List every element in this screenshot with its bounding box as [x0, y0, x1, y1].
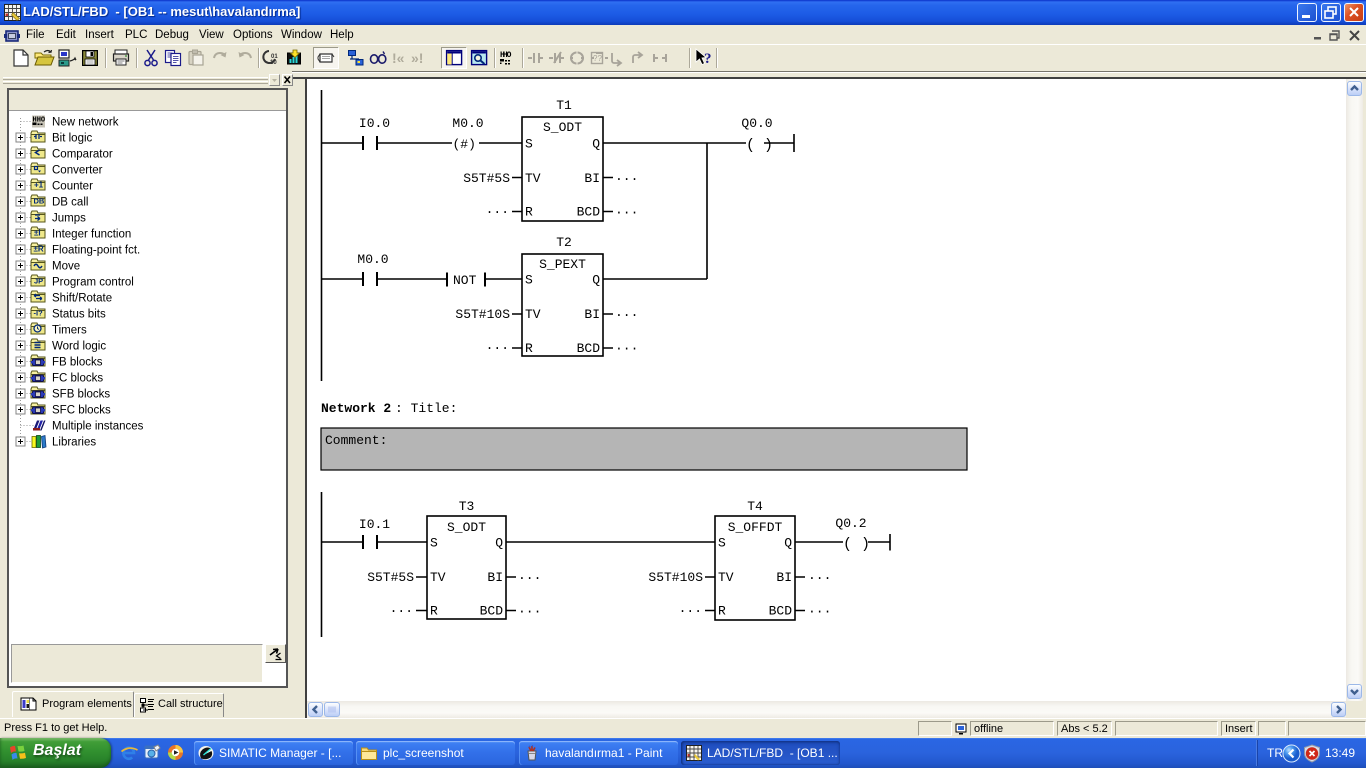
svg-text:R: R [525, 341, 533, 356]
svg-text:Q0.2: Q0.2 [835, 516, 866, 531]
svg-text:M0.0: M0.0 [452, 116, 483, 131]
svg-text:T3: T3 [459, 499, 475, 514]
svg-text:BI: BI [584, 307, 600, 322]
svg-text:(#): (#) [453, 137, 476, 152]
svg-text:BCD: BCD [769, 604, 793, 619]
svg-text:...: ... [808, 602, 831, 617]
svg-text:...: ... [679, 601, 702, 616]
svg-text:S_OFFDT: S_OFFDT [728, 520, 783, 535]
svg-text:DB: DB [34, 197, 45, 206]
svg-text:±R: ±R [34, 245, 44, 254]
svg-text:10: 10 [270, 60, 277, 66]
svg-text:R: R [718, 604, 726, 619]
svg-text:+1: +1 [34, 181, 44, 190]
svg-text:TV: TV [525, 307, 541, 322]
svg-text:S5T#5S: S5T#5S [367, 570, 414, 585]
svg-text:I0.1: I0.1 [359, 517, 390, 532]
svg-text:SFC blocks: SFC blocks [52, 405, 111, 417]
svg-text:Status bits: Status bits [52, 309, 106, 321]
svg-text:TV: TV [430, 570, 446, 585]
svg-text:BI: BI [487, 570, 503, 585]
svg-text:BI: BI [584, 171, 600, 186]
svg-text:...: ... [518, 602, 541, 617]
svg-text:S_PEXT: S_PEXT [539, 257, 586, 272]
svg-text:??: ?? [593, 54, 602, 63]
svg-text:...: ... [615, 203, 638, 218]
svg-text:DB call: DB call [52, 197, 88, 209]
svg-text:R: R [430, 604, 438, 619]
svg-text:!«: !« [392, 50, 405, 66]
svg-text:Floating-point fct.: Floating-point fct. [52, 245, 140, 257]
svg-text:: Title:: : Title: [395, 401, 457, 416]
svg-text:S5T#10S: S5T#10S [648, 570, 703, 585]
svg-text:Bit logic: Bit logic [52, 133, 93, 145]
svg-text:S5T#5S: S5T#5S [463, 171, 510, 186]
svg-text:New network: New network [52, 117, 119, 129]
svg-text:Word logic: Word logic [52, 341, 106, 353]
svg-text:...: ... [615, 305, 638, 320]
svg-text:Move: Move [52, 261, 80, 273]
svg-text:JP: JP [34, 277, 43, 286]
svg-text:S_ODT: S_ODT [543, 120, 582, 135]
svg-text:Q: Q [495, 536, 503, 551]
svg-text:NOT: NOT [453, 273, 477, 288]
svg-text:Comment:: Comment: [325, 433, 387, 448]
svg-text:BCD: BCD [480, 604, 504, 619]
svg-text:±I: ±I [34, 229, 41, 238]
svg-text:SFB blocks: SFB blocks [52, 389, 110, 401]
svg-text:T4: T4 [747, 499, 763, 514]
svg-text:Counter: Counter [52, 181, 93, 193]
svg-text:S: S [430, 536, 438, 551]
svg-text:...: ... [615, 339, 638, 354]
svg-text:BCD: BCD [577, 205, 601, 220]
svg-text:...: ... [486, 202, 509, 217]
svg-text:...: ... [518, 568, 541, 583]
svg-text:R: R [525, 205, 533, 220]
svg-text:TV: TV [718, 570, 734, 585]
svg-text:Timers: Timers [52, 325, 87, 337]
svg-text:Q: Q [592, 273, 600, 288]
svg-text:S5T#10S: S5T#10S [455, 307, 510, 322]
svg-text:FB blocks: FB blocks [52, 357, 103, 369]
svg-text:BCD: BCD [577, 341, 601, 356]
svg-text:FC blocks: FC blocks [52, 373, 103, 385]
svg-text:Program control: Program control [52, 277, 134, 289]
svg-text:T2: T2 [556, 235, 572, 250]
svg-text:Q: Q [784, 536, 792, 551]
svg-text:TV: TV [525, 171, 541, 186]
svg-text:Converter: Converter [52, 165, 103, 177]
svg-text:-I?: -I? [34, 309, 44, 318]
svg-text:?: ? [704, 51, 712, 67]
svg-text:Network 2: Network 2 [321, 401, 391, 416]
svg-text:Shift/Rotate: Shift/Rotate [52, 293, 112, 305]
svg-text:...: ... [486, 338, 509, 353]
svg-text:Comparator: Comparator [52, 149, 113, 161]
svg-text:Q0.0: Q0.0 [741, 116, 772, 131]
svg-text:T1: T1 [556, 98, 572, 113]
svg-text:Libraries: Libraries [52, 437, 96, 449]
svg-text:M0.0: M0.0 [357, 252, 388, 267]
svg-text:Integer function: Integer function [52, 229, 131, 241]
svg-text:...: ... [615, 169, 638, 184]
svg-text:( ): ( ) [746, 137, 773, 154]
svg-text:Multiple instances: Multiple instances [52, 421, 144, 433]
svg-text:Q: Q [592, 137, 600, 152]
svg-text:S: S [718, 536, 726, 551]
svg-text:S_ODT: S_ODT [447, 520, 486, 535]
svg-text:HHO: HHO [500, 51, 512, 60]
svg-text:S: S [525, 137, 533, 152]
svg-text:...: ... [808, 568, 831, 583]
svg-text:Jumps: Jumps [52, 213, 86, 225]
svg-text:»!: »! [411, 50, 423, 66]
svg-text:S: S [525, 273, 533, 288]
svg-text:BI: BI [776, 570, 792, 585]
svg-text:I0.0: I0.0 [359, 116, 390, 131]
svg-text:( ): ( ) [843, 536, 870, 553]
svg-text:...: ... [390, 601, 413, 616]
